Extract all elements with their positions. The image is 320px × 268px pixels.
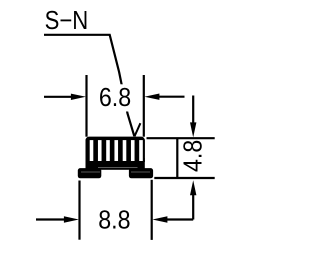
svg-text:6.8: 6.8 <box>99 84 131 112</box>
svg-text:8.8: 8.8 <box>98 207 130 235</box>
svg-text:4.8: 4.8 <box>180 140 208 172</box>
svg-text:S−N: S−N <box>45 6 89 35</box>
